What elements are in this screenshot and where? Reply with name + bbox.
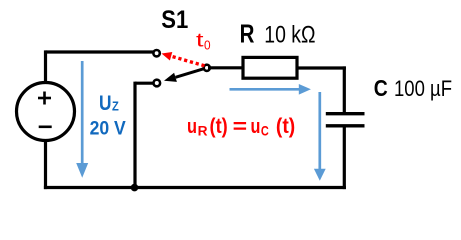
svg-text:20 V: 20 V — [90, 118, 126, 140]
svg-text:=: = — [233, 116, 248, 138]
voltage source UZ — [17, 83, 75, 141]
wire middle vertical (junction up to switch lower contact) — [133, 82, 136, 188]
wire right vertical lower (capacitor bottom plate to bottom rail) — [343, 126, 346, 189]
voltage arrow uC (blue, down) — [314, 92, 326, 181]
svg-text:U: U — [99, 91, 112, 115]
wire switch lower stub — [135, 82, 153, 85]
label uR(t) = uC(t) — [187, 115, 295, 138]
junction node — [131, 184, 139, 192]
svg-text:u: u — [187, 116, 197, 138]
label UZ 20 V — [90, 91, 126, 140]
svg-text:C: C — [261, 123, 269, 138]
svg-text:(t): (t) — [210, 115, 228, 138]
wire top horizontal (source top to switch contact) — [46, 50, 154, 53]
svg-text:0: 0 — [204, 38, 211, 53]
capacitor C — [326, 114, 365, 126]
svg-text:10 kΩ: 10 kΩ — [264, 21, 315, 48]
current arrow through R (blue, right) — [230, 84, 311, 95]
svg-text:R: R — [198, 123, 208, 138]
wire left vertical lower (source bottom to bottom rail) — [44, 140, 47, 189]
wire right vertical upper (corner to capacitor top plate) — [343, 66, 346, 113]
switch S1 contact common — [204, 65, 210, 71]
svg-text:u: u — [251, 116, 261, 138]
switch S1 contact lower — [154, 80, 161, 87]
svg-text:Z: Z — [112, 99, 119, 114]
resistor R — [243, 57, 297, 78]
wire resistor to right corner — [297, 66, 346, 69]
switch S1 contact upper — [153, 50, 159, 56]
switching action arrow t0 (red dashed) — [162, 52, 205, 66]
wire switch common to resistor — [208, 66, 243, 69]
svg-text:C: C — [374, 75, 388, 101]
wire bottom rail — [44, 186, 346, 189]
wire left vertical upper (corner down to source top) — [44, 50, 47, 83]
voltage arrow UZ (blue, down) — [76, 61, 88, 178]
svg-text:R: R — [240, 18, 255, 48]
svg-text:S1: S1 — [161, 6, 188, 34]
switch S1 arm — [164, 68, 207, 82]
svg-text:100 µF: 100 µF — [394, 76, 452, 101]
svg-text:(t): (t) — [276, 115, 295, 138]
